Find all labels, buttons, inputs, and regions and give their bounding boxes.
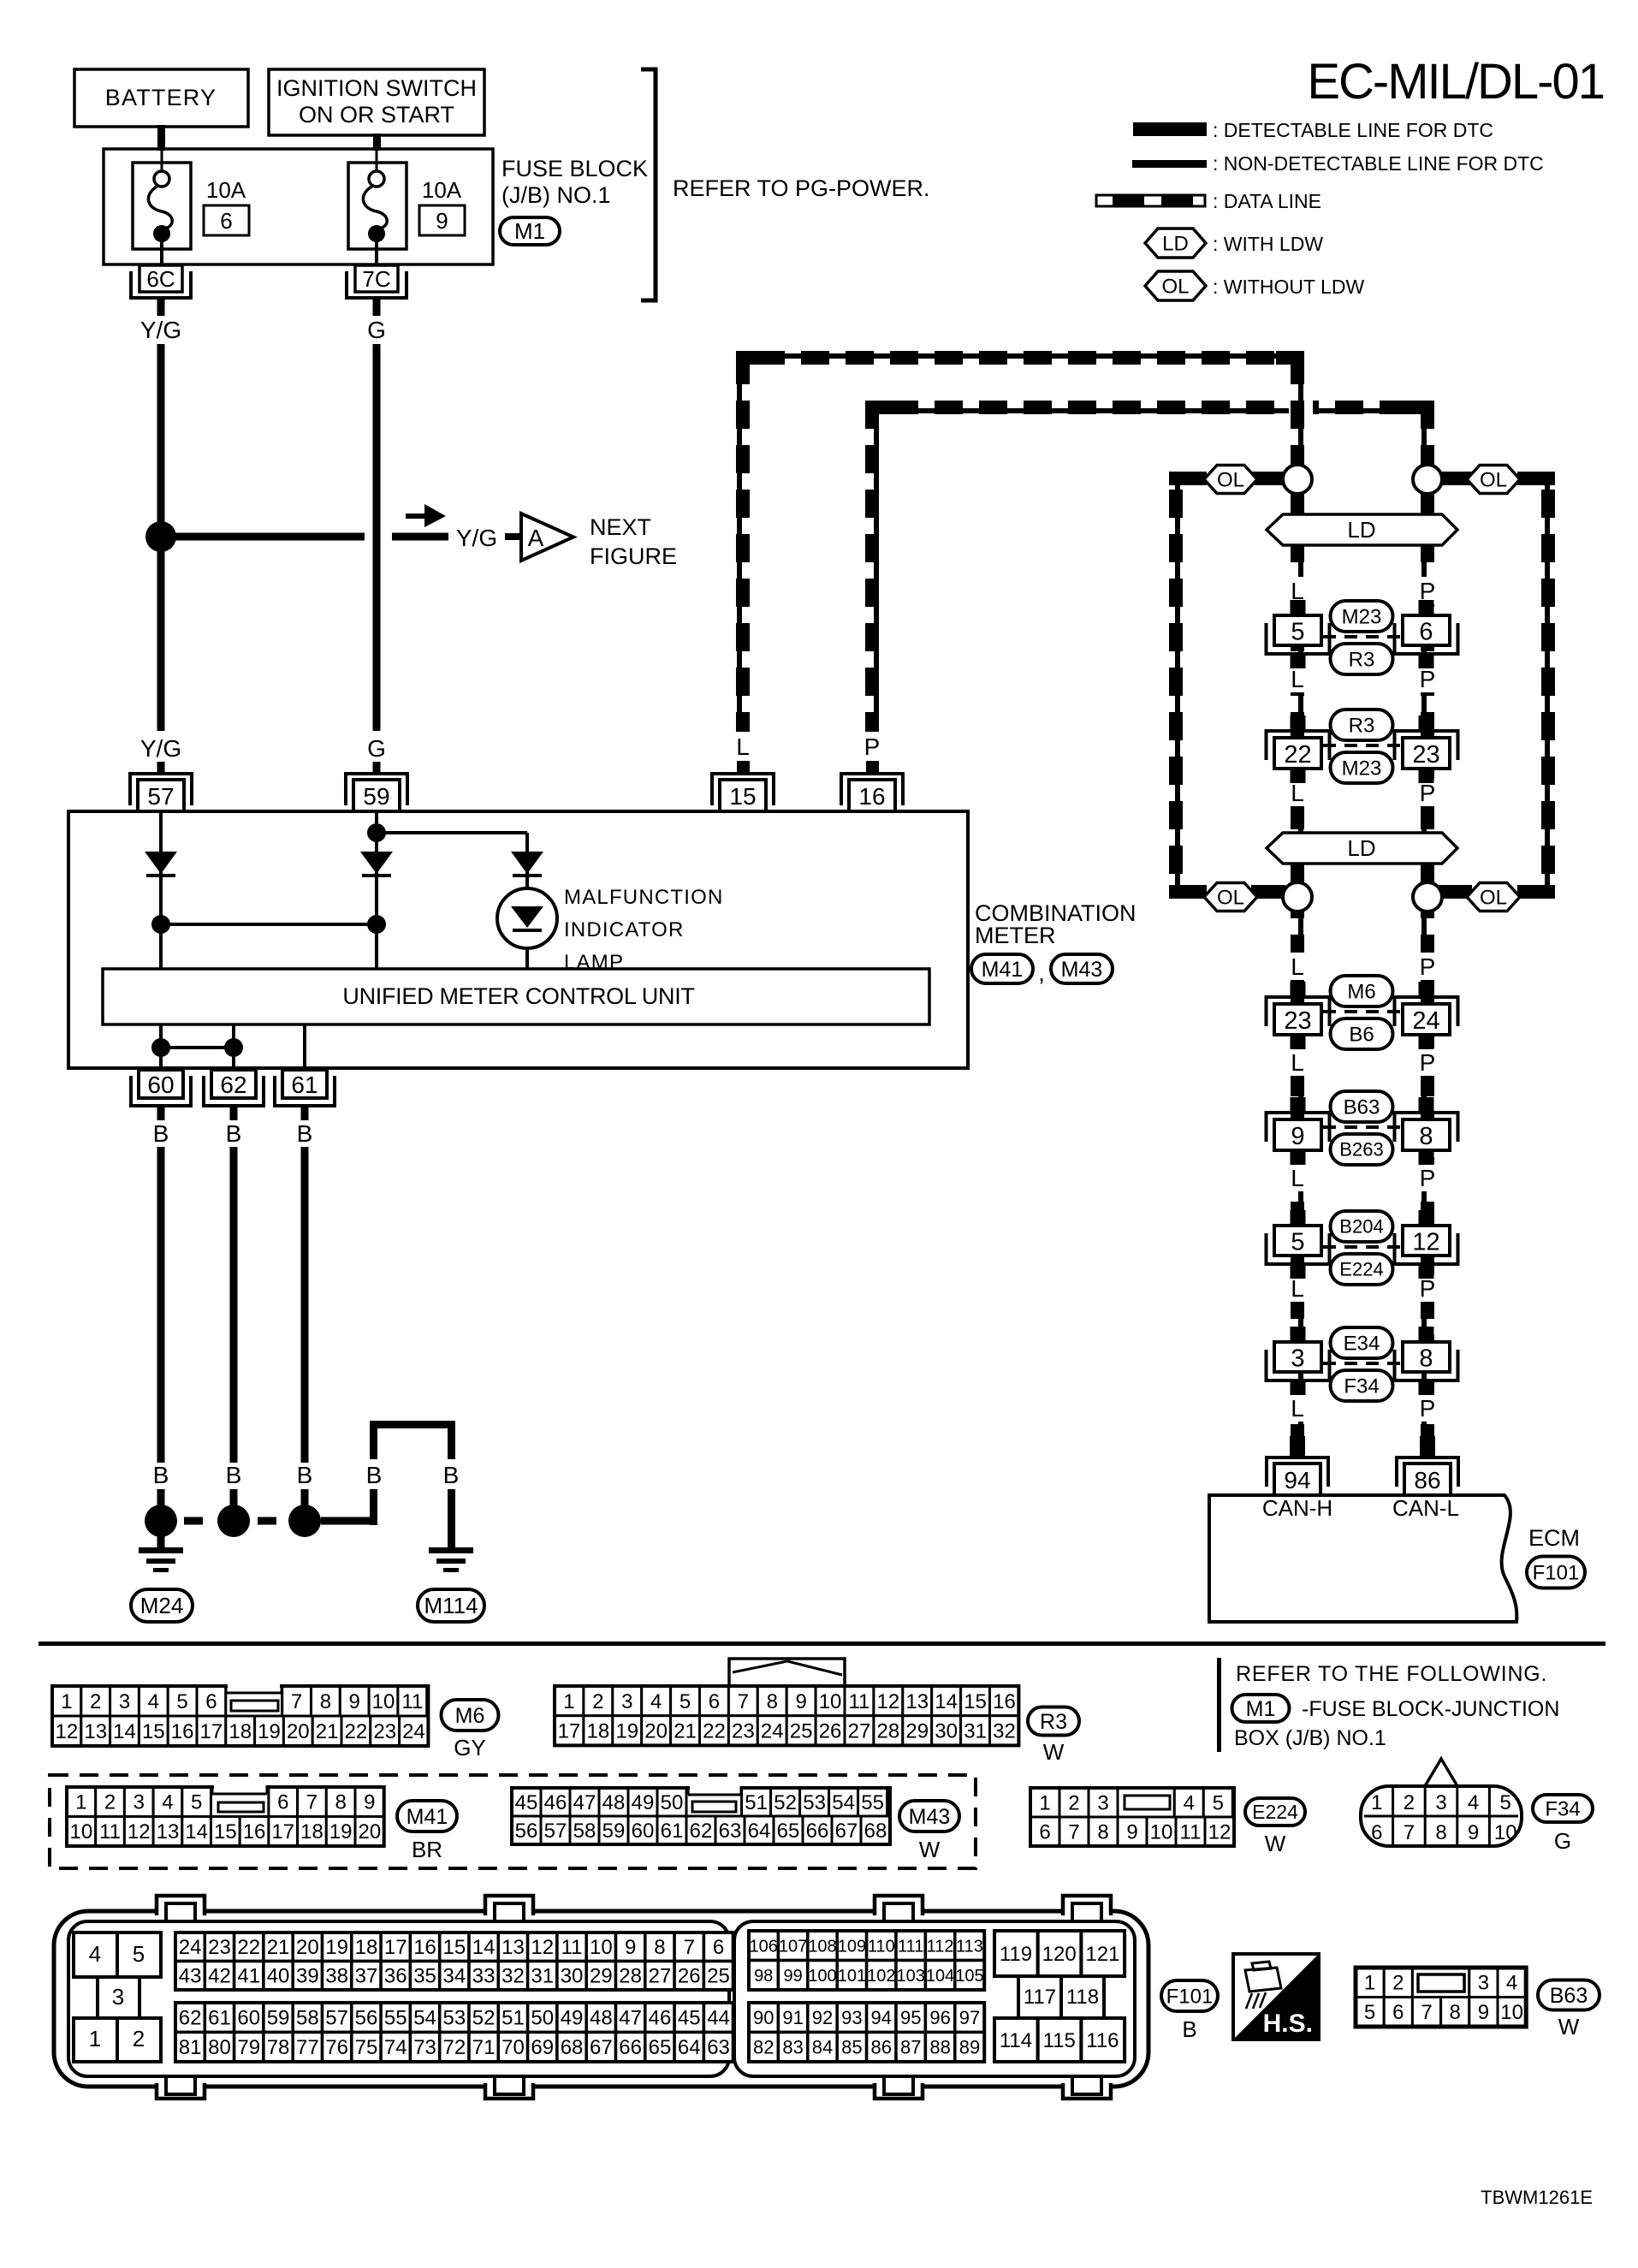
svg-text:86: 86 bbox=[871, 2036, 892, 2057]
svg-text:Y/G: Y/G bbox=[140, 735, 181, 762]
svg-text:: WITHOUT LDW: : WITHOUT LDW bbox=[1213, 276, 1364, 298]
svg-text:83: 83 bbox=[782, 2036, 803, 2057]
wire label L row 2 bbox=[1283, 665, 1312, 692]
svg-text:6: 6 bbox=[1392, 2001, 1404, 2024]
svg-text:FIGURE: FIGURE bbox=[590, 543, 677, 569]
svg-text:37: 37 bbox=[355, 1965, 378, 1988]
svg-text:15: 15 bbox=[729, 783, 756, 810]
svg-text:7: 7 bbox=[1068, 1820, 1079, 1843]
svg-text:6: 6 bbox=[220, 208, 232, 234]
svg-text:8: 8 bbox=[1097, 1820, 1108, 1843]
svg-text:12: 12 bbox=[1208, 1820, 1231, 1843]
connector pair B204 E224 splice bbox=[1267, 1210, 1458, 1285]
svg-text:106: 106 bbox=[750, 1937, 778, 1956]
svg-text:INDICATOR: INDICATOR bbox=[564, 918, 685, 941]
svg-text:41: 41 bbox=[237, 1965, 260, 1988]
svg-text:: DATA LINE: : DATA LINE bbox=[1213, 190, 1321, 212]
wire label P row 4 bbox=[1413, 953, 1442, 980]
svg-text:P: P bbox=[1420, 1165, 1436, 1191]
svg-text:7: 7 bbox=[738, 1690, 749, 1713]
svg-text:8: 8 bbox=[767, 1690, 778, 1713]
connector pair R3 M23 splice bbox=[1267, 709, 1458, 783]
svg-text:9: 9 bbox=[1468, 1821, 1479, 1844]
svg-text:11: 11 bbox=[848, 1690, 869, 1713]
svg-text:50: 50 bbox=[531, 2007, 554, 2030]
wire label B lower 2 bbox=[226, 1462, 242, 1488]
svg-text:11: 11 bbox=[401, 1690, 423, 1713]
svg-text:100: 100 bbox=[808, 1967, 836, 1986]
wire label B bridge left bbox=[366, 1462, 383, 1488]
svg-text:13: 13 bbox=[157, 1820, 180, 1843]
connector M1 oval bottom bbox=[1232, 1695, 1290, 1722]
svg-text:9: 9 bbox=[795, 1690, 806, 1713]
svg-text:: NON-DETECTABLE LINE FOR DTC: : NON-DETECTABLE LINE FOR DTC bbox=[1213, 152, 1544, 175]
connector 15 bbox=[712, 774, 774, 811]
svg-text:102: 102 bbox=[867, 1967, 895, 1986]
svg-text:4: 4 bbox=[1184, 1791, 1195, 1814]
svg-text:OL: OL bbox=[1161, 275, 1189, 298]
svg-text:B263: B263 bbox=[1339, 1139, 1383, 1161]
svg-text:7: 7 bbox=[291, 1690, 302, 1713]
wire Y/G branch to next figure bbox=[161, 533, 448, 541]
svg-text:114: 114 bbox=[1000, 2029, 1032, 2052]
svg-text:L: L bbox=[1291, 1165, 1304, 1191]
svg-text:61: 61 bbox=[208, 2007, 231, 2030]
svg-text:METER: METER bbox=[975, 923, 1056, 948]
svg-text:74: 74 bbox=[384, 2036, 407, 2059]
data line corner blocks bbox=[736, 351, 1434, 429]
svg-text:G: G bbox=[367, 735, 386, 762]
svg-text:60: 60 bbox=[632, 1820, 655, 1843]
svg-text:F34: F34 bbox=[1545, 1797, 1580, 1820]
svg-text:B63: B63 bbox=[1550, 1984, 1588, 2008]
svg-text:B204: B204 bbox=[1339, 1216, 1383, 1238]
svg-text:121: 121 bbox=[1085, 1943, 1119, 1966]
svg-text:46: 46 bbox=[649, 2007, 672, 2030]
svg-text:10A: 10A bbox=[422, 177, 462, 203]
svg-text:60: 60 bbox=[147, 1072, 174, 1098]
svg-text:E224: E224 bbox=[1252, 1801, 1298, 1823]
svg-text:M43: M43 bbox=[1061, 958, 1103, 982]
svg-text:23: 23 bbox=[1284, 1007, 1311, 1035]
wire UMCU to connector 61 bbox=[303, 1024, 306, 1068]
wire label P above meter bbox=[857, 733, 887, 760]
ground junction node 3 bbox=[288, 1505, 321, 1537]
svg-text:63: 63 bbox=[707, 2036, 730, 2059]
svg-text:F34: F34 bbox=[1344, 1374, 1379, 1398]
svg-text:92: 92 bbox=[812, 2007, 833, 2028]
svg-text:REFER TO THE FOLLOWING.: REFER TO THE FOLLOWING. bbox=[1236, 1662, 1547, 1686]
battery bbox=[74, 69, 248, 127]
svg-text:10: 10 bbox=[819, 1690, 842, 1713]
svg-text:17: 17 bbox=[558, 1719, 581, 1743]
svg-text:W: W bbox=[1558, 2014, 1580, 2039]
connector 57 bbox=[130, 774, 192, 811]
svg-text:27: 27 bbox=[649, 1965, 672, 1988]
svg-text:62: 62 bbox=[220, 1072, 246, 1098]
svg-text:61: 61 bbox=[661, 1820, 684, 1843]
svg-text:6: 6 bbox=[1039, 1820, 1050, 1843]
connector M43 pinout bbox=[512, 1784, 890, 1844]
svg-text:57: 57 bbox=[325, 2007, 348, 2030]
wire label L row 6 bbox=[1283, 1164, 1312, 1191]
svg-text:119: 119 bbox=[1000, 1943, 1032, 1966]
svg-text:Y/G: Y/G bbox=[140, 317, 181, 343]
svg-text:21: 21 bbox=[316, 1720, 339, 1743]
OL hexagon top right bbox=[1467, 466, 1520, 494]
svg-text:B: B bbox=[366, 1462, 383, 1488]
ground M24 oval bbox=[131, 1589, 193, 1622]
data line L vertical from meter bbox=[736, 351, 750, 732]
svg-text:B: B bbox=[443, 1462, 460, 1488]
svg-text:ON OR START: ON OR START bbox=[299, 102, 454, 128]
svg-text:P: P bbox=[1420, 780, 1436, 806]
legend LD text bbox=[1213, 233, 1323, 255]
junction node on 59 wire bbox=[367, 823, 386, 842]
svg-text:20: 20 bbox=[358, 1820, 381, 1843]
legend LD symbol with LDW bbox=[1145, 229, 1206, 258]
svg-text:105: 105 bbox=[955, 1967, 983, 1986]
separator line bbox=[39, 1642, 1605, 1646]
svg-text:120: 120 bbox=[1042, 1943, 1077, 1966]
legend OL symbol without LDW bbox=[1145, 271, 1206, 300]
svg-text:86: 86 bbox=[1414, 1467, 1440, 1493]
diode D1 bbox=[145, 852, 177, 876]
svg-text:55: 55 bbox=[861, 1791, 884, 1814]
svg-text:66: 66 bbox=[619, 2036, 642, 2059]
svg-text:2: 2 bbox=[1392, 1972, 1404, 1995]
svg-text:11: 11 bbox=[99, 1820, 121, 1843]
svg-text:104: 104 bbox=[926, 1967, 954, 1986]
data line P main vertical bbox=[1421, 466, 1434, 1457]
svg-text:33: 33 bbox=[472, 1965, 496, 1988]
svg-text:51: 51 bbox=[745, 1791, 768, 1814]
svg-text:2: 2 bbox=[90, 1690, 101, 1713]
svg-text:3: 3 bbox=[1478, 1972, 1489, 1995]
wire label L above meter bbox=[727, 733, 758, 760]
svg-text:59: 59 bbox=[363, 783, 389, 810]
svg-text:1: 1 bbox=[75, 1791, 86, 1814]
svg-text:B: B bbox=[297, 1120, 313, 1147]
svg-text:9: 9 bbox=[1291, 1123, 1304, 1150]
svg-text:M1: M1 bbox=[514, 218, 545, 244]
svg-text:M41: M41 bbox=[982, 958, 1024, 982]
svg-text:9: 9 bbox=[364, 1791, 375, 1814]
svg-text:P: P bbox=[1420, 1275, 1436, 1302]
fuse F9 number box 9 bbox=[419, 205, 465, 235]
fuse F9 10A bbox=[348, 149, 407, 264]
svg-text:8: 8 bbox=[1419, 1345, 1433, 1373]
svg-text:17: 17 bbox=[384, 1936, 407, 1959]
svg-text:24: 24 bbox=[1412, 1007, 1439, 1035]
svg-text:46: 46 bbox=[544, 1791, 567, 1814]
svg-text:23: 23 bbox=[732, 1719, 755, 1743]
svg-text:13: 13 bbox=[905, 1690, 929, 1713]
stub above circle bottom P bbox=[1421, 863, 1434, 883]
svg-text:3: 3 bbox=[112, 1984, 124, 2010]
data line P drop to circle bbox=[1421, 401, 1434, 466]
svg-text:27: 27 bbox=[848, 1719, 871, 1743]
svg-text:L: L bbox=[1291, 1049, 1304, 1076]
svg-text:L: L bbox=[1291, 953, 1304, 980]
svg-text:M6: M6 bbox=[455, 1704, 485, 1728]
svg-text:17: 17 bbox=[200, 1720, 223, 1743]
stub above circle bottom L bbox=[1291, 863, 1304, 883]
svg-text:LD: LD bbox=[1347, 517, 1375, 543]
svg-text:90: 90 bbox=[753, 2007, 774, 2028]
svg-text:16: 16 bbox=[993, 1690, 1016, 1713]
svg-text:49: 49 bbox=[561, 2007, 584, 2030]
svg-text:10: 10 bbox=[1150, 1820, 1173, 1843]
svg-text:1: 1 bbox=[1039, 1791, 1050, 1814]
svg-text:107: 107 bbox=[779, 1937, 807, 1956]
svg-text:34: 34 bbox=[442, 1965, 466, 1988]
svg-text:47: 47 bbox=[619, 2007, 642, 2030]
connector M6 oval bbox=[442, 1700, 499, 1760]
ground symbol M114 bbox=[429, 1547, 473, 1572]
svg-text:98: 98 bbox=[754, 1967, 773, 1986]
wire B stub to junction 1 bbox=[157, 1489, 165, 1508]
svg-text:68: 68 bbox=[864, 1820, 887, 1843]
svg-text:F101: F101 bbox=[1533, 1561, 1580, 1584]
svg-text:4: 4 bbox=[650, 1690, 662, 1713]
svg-text:9: 9 bbox=[349, 1690, 360, 1713]
svg-text:3: 3 bbox=[1291, 1345, 1304, 1373]
svg-text:118: 118 bbox=[1066, 1986, 1099, 2009]
svg-text:56: 56 bbox=[355, 2007, 378, 2030]
wire 57 to diode bbox=[159, 811, 163, 969]
wire label B lower 1 bbox=[153, 1462, 169, 1488]
svg-text:12: 12 bbox=[1412, 1229, 1439, 1256]
svg-text:29: 29 bbox=[905, 1719, 929, 1743]
svg-text:19: 19 bbox=[615, 1719, 638, 1743]
connector F34 oval bbox=[1533, 1795, 1593, 1854]
connector 94 CAN-H bbox=[1267, 1436, 1328, 1495]
connector F34 pinout bbox=[1361, 1759, 1522, 1846]
OL bypass ring right bbox=[1517, 472, 1555, 899]
svg-text:51: 51 bbox=[501, 2007, 525, 2030]
svg-text:10: 10 bbox=[1500, 2001, 1523, 2024]
ECM label bbox=[1528, 1525, 1580, 1551]
fuse block label bbox=[501, 156, 648, 208]
wire stub into connector 59 bbox=[373, 762, 381, 775]
svg-text:110: 110 bbox=[868, 1937, 895, 1956]
svg-text:W: W bbox=[919, 1837, 941, 1862]
svg-text:95: 95 bbox=[900, 2007, 921, 2028]
svg-text:64: 64 bbox=[678, 2036, 701, 2059]
wire label Y/G top bbox=[140, 317, 181, 343]
svg-text:50: 50 bbox=[661, 1791, 684, 1814]
svg-text:6C: 6C bbox=[146, 266, 175, 292]
svg-text:62: 62 bbox=[690, 1820, 713, 1843]
wire between ground junctions bbox=[161, 1046, 234, 1049]
H.S. symbol bbox=[1233, 1954, 1319, 2039]
svg-text:5: 5 bbox=[1500, 1791, 1511, 1814]
svg-text:B6: B6 bbox=[1349, 1023, 1374, 1046]
wire label L row 8 bbox=[1283, 1394, 1312, 1422]
svg-text:(J/B) NO.1: (J/B) NO.1 bbox=[501, 182, 611, 208]
svg-text:P: P bbox=[1420, 1395, 1436, 1422]
combination meter label bbox=[975, 900, 1137, 948]
wire ignition switch to fuse block bbox=[373, 134, 381, 151]
svg-text:W: W bbox=[1043, 1739, 1065, 1765]
svg-text:79: 79 bbox=[237, 2036, 260, 2059]
svg-text:10: 10 bbox=[69, 1820, 92, 1843]
stub hex to circle bottom right bbox=[1438, 885, 1472, 899]
junction node below UMCU mid bbox=[224, 1038, 243, 1057]
svg-text:E34: E34 bbox=[1344, 1332, 1380, 1355]
dashed link between ground nodes bbox=[184, 1517, 276, 1525]
svg-text:23: 23 bbox=[208, 1936, 231, 1959]
svg-text:97: 97 bbox=[959, 2007, 980, 2028]
CAN-H label bbox=[1262, 1495, 1332, 1521]
svg-text:43: 43 bbox=[179, 1965, 202, 1988]
diode D2 bbox=[360, 852, 393, 876]
F101 pin grid 106-113 98-105 bbox=[749, 1931, 984, 1990]
svg-text:2: 2 bbox=[104, 1791, 116, 1814]
svg-text:6: 6 bbox=[1371, 1821, 1382, 1844]
legend OL text bbox=[1213, 276, 1364, 298]
stub hex to circle top right bbox=[1438, 472, 1472, 485]
connector M6 pinout bbox=[52, 1683, 428, 1746]
svg-text:32: 32 bbox=[993, 1719, 1016, 1743]
svg-text:1: 1 bbox=[563, 1690, 574, 1713]
svg-text:L: L bbox=[1291, 1275, 1304, 1302]
svg-text:-FUSE BLOCK-JUNCTION: -FUSE BLOCK-JUNCTION bbox=[1302, 1697, 1559, 1721]
connector pair M23 R3 splice bbox=[1267, 600, 1458, 674]
svg-text:57: 57 bbox=[544, 1820, 567, 1843]
data line P vertical from meter bbox=[865, 401, 879, 732]
svg-text:52: 52 bbox=[774, 1791, 797, 1814]
svg-text:18: 18 bbox=[355, 1936, 378, 1959]
fuse F6 number box 6 bbox=[204, 205, 249, 235]
F101 large pins 114-121 bbox=[994, 1931, 1125, 2062]
svg-text:23: 23 bbox=[1412, 741, 1439, 769]
wire label L row 4 bbox=[1283, 953, 1312, 980]
svg-text:13: 13 bbox=[501, 1936, 525, 1959]
svg-text:8: 8 bbox=[335, 1791, 346, 1814]
svg-text:30: 30 bbox=[561, 1965, 584, 1988]
wire UMCU to connector 62 bbox=[232, 1024, 235, 1068]
svg-text:35: 35 bbox=[413, 1965, 436, 1988]
svg-text:L: L bbox=[736, 733, 750, 760]
svg-text:23: 23 bbox=[373, 1720, 396, 1743]
svg-text:87: 87 bbox=[900, 2036, 921, 2057]
svg-text:W: W bbox=[1265, 1831, 1286, 1856]
connector 60 bbox=[131, 1070, 191, 1120]
wire label L row 7 bbox=[1283, 1274, 1312, 1302]
svg-text:B: B bbox=[226, 1462, 242, 1488]
stub below circle top P bbox=[1421, 494, 1434, 515]
wire label G top bbox=[367, 317, 386, 343]
svg-text:E224: E224 bbox=[1339, 1259, 1383, 1280]
svg-text:4: 4 bbox=[148, 1690, 159, 1713]
svg-text:5: 5 bbox=[1291, 619, 1304, 646]
wire label L row 1 bbox=[1283, 577, 1312, 604]
wire B stub to junction 3 bbox=[301, 1489, 309, 1508]
wire label P row 1 bbox=[1413, 577, 1442, 604]
svg-text:8: 8 bbox=[1435, 1821, 1446, 1844]
svg-text:62: 62 bbox=[179, 2007, 202, 2030]
svg-text:P: P bbox=[1420, 1049, 1436, 1076]
svg-text:28: 28 bbox=[876, 1719, 899, 1743]
CAN-L label bbox=[1392, 1495, 1459, 1521]
svg-text:1: 1 bbox=[61, 1690, 72, 1713]
svg-text:B: B bbox=[1182, 2016, 1196, 2042]
svg-text:19: 19 bbox=[325, 1936, 348, 1959]
svg-text:B63: B63 bbox=[1344, 1095, 1380, 1119]
connector M41 oval bbox=[397, 1801, 457, 1862]
svg-text:MALFUNCTION: MALFUNCTION bbox=[564, 886, 724, 909]
svg-text:22: 22 bbox=[237, 1936, 260, 1959]
svg-text:ECM: ECM bbox=[1528, 1525, 1580, 1551]
wire B stub to junction 2 bbox=[230, 1489, 238, 1508]
svg-text:5: 5 bbox=[1364, 2001, 1375, 2024]
legend non-detectable line text bbox=[1213, 152, 1544, 175]
svg-text:7: 7 bbox=[1421, 2001, 1432, 2024]
connector 16 bbox=[841, 774, 903, 811]
svg-text:22: 22 bbox=[345, 1720, 368, 1743]
svg-text:88: 88 bbox=[929, 2036, 950, 2057]
svg-text:3: 3 bbox=[134, 1791, 145, 1814]
svg-text:89: 89 bbox=[959, 2036, 980, 2057]
combination meter box bbox=[68, 811, 968, 1068]
arrow next figure bbox=[406, 504, 446, 527]
wire to ground M24 bbox=[157, 1532, 165, 1549]
svg-text:F101: F101 bbox=[1166, 1985, 1214, 2008]
wire between internal junctions bbox=[161, 923, 377, 926]
svg-text:M114: M114 bbox=[424, 1593, 478, 1618]
wire label B upper 1 bbox=[153, 1120, 169, 1147]
wire label G above meter bbox=[367, 735, 386, 762]
svg-text:R3: R3 bbox=[1349, 714, 1375, 737]
wire stub into connector 15 bbox=[737, 761, 750, 775]
svg-text:93: 93 bbox=[841, 2007, 862, 2028]
svg-text:4: 4 bbox=[1468, 1791, 1479, 1814]
wire label Y/G above meter bbox=[140, 735, 181, 762]
svg-text:5: 5 bbox=[1213, 1791, 1224, 1814]
svg-text:7C: 7C bbox=[362, 266, 390, 292]
svg-text:10: 10 bbox=[1494, 1821, 1517, 1844]
svg-text:81: 81 bbox=[179, 2036, 202, 2059]
svg-text:26: 26 bbox=[678, 1965, 701, 1988]
svg-text:57: 57 bbox=[147, 783, 174, 810]
junction node Y/G bbox=[145, 521, 176, 552]
wire B vertical 1 bbox=[157, 1147, 165, 1463]
svg-text:29: 29 bbox=[590, 1965, 613, 1988]
svg-text:48: 48 bbox=[590, 2007, 613, 2030]
wire bridge right leg bbox=[448, 1489, 455, 1548]
svg-text:113: 113 bbox=[956, 1937, 983, 1956]
svg-text:30: 30 bbox=[935, 1719, 958, 1743]
splice circle top L bbox=[1283, 465, 1312, 494]
svg-text:BOX (J/B) NO.1: BOX (J/B) NO.1 bbox=[1234, 1726, 1386, 1750]
svg-text:28: 28 bbox=[619, 1965, 642, 1988]
svg-text:31: 31 bbox=[964, 1719, 987, 1743]
svg-text:25: 25 bbox=[707, 1965, 730, 1988]
ECM box bbox=[1209, 1495, 1516, 1622]
svg-text:76: 76 bbox=[325, 2036, 348, 2059]
svg-text:BATTERY: BATTERY bbox=[105, 85, 217, 110]
wire label Y/G branch bbox=[456, 525, 497, 551]
ground junction node 1 bbox=[145, 1505, 177, 1537]
svg-text:6: 6 bbox=[205, 1690, 217, 1713]
svg-text:26: 26 bbox=[819, 1719, 842, 1743]
svg-text:45: 45 bbox=[678, 2007, 701, 2030]
svg-text:11: 11 bbox=[561, 1936, 583, 1959]
svg-text:54: 54 bbox=[832, 1791, 855, 1814]
svg-text:75: 75 bbox=[355, 2036, 378, 2059]
